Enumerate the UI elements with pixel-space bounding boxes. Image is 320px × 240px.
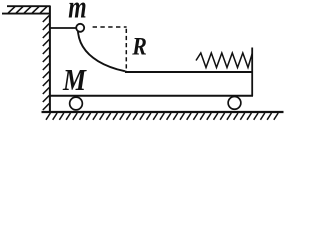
dashed radius horizontal — [93, 26, 127, 28]
right wheel — [228, 97, 241, 110]
dashed radius vertical — [125, 29, 127, 73]
wall line — [49, 6, 51, 113]
ramp top ledge line — [50, 27, 77, 29]
ceiling surface line — [2, 13, 49, 15]
spring — [196, 53, 252, 68]
wall hatch — [43, 16, 49, 111]
left wheel — [70, 97, 83, 110]
svg-text:R: R — [131, 33, 146, 60]
ball m — [76, 24, 84, 32]
ground hatch — [46, 113, 278, 120]
svg-text:m: m — [68, 0, 86, 25]
cart top surface line — [125, 71, 253, 73]
ceiling top line — [7, 5, 51, 7]
ceiling hatch — [8, 7, 47, 14]
curved ramp arc — [78, 28, 126, 72]
ground line — [42, 111, 284, 113]
cart bottom line — [50, 95, 253, 97]
svg-text:M: M — [62, 62, 87, 97]
cart right baffle — [251, 48, 253, 97]
